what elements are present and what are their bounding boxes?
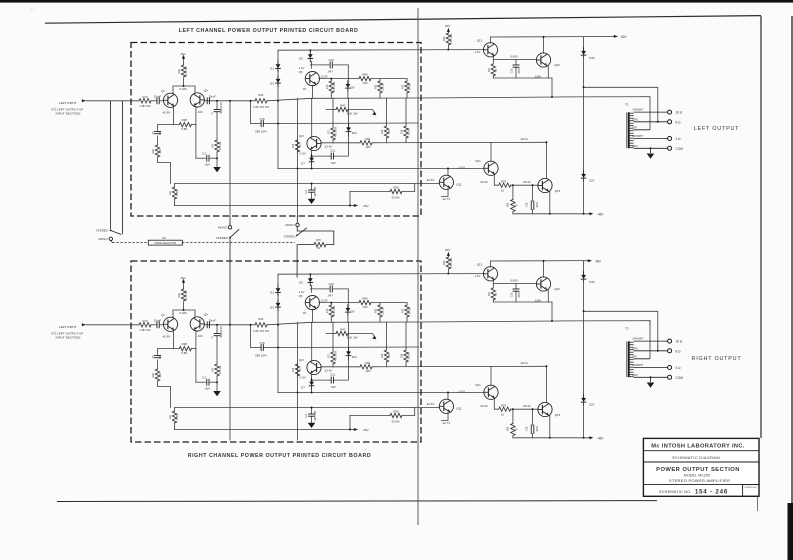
terminal MONO switch B <box>296 223 299 226</box>
arrow 46V right channel <box>588 259 592 262</box>
page top border <box>45 16 761 24</box>
dashed link to mode box <box>113 242 149 244</box>
svg-text:MONO: MONO <box>218 226 228 230</box>
switch A arm <box>230 229 239 237</box>
wire R75 to switch B column <box>297 244 314 246</box>
contact STEREO switch A <box>229 237 231 239</box>
svg-text:STEREO: STEREO <box>96 229 109 233</box>
wire patch T2 8ohm feed <box>657 346 659 351</box>
wire mono to dashed link <box>111 241 113 243</box>
title block row line 2 <box>643 461 759 463</box>
terminal MONO switch A <box>228 226 231 229</box>
svg-text:MODE SELECTOR: MODE SELECTOR <box>154 242 176 245</box>
title block outer frame <box>643 438 759 496</box>
scan right edge strip <box>788 503 793 560</box>
left PCB dashed box <box>131 43 421 217</box>
svg-text:SCHEMATIC DIAGRAM: SCHEMATIC DIAGRAM <box>672 455 720 460</box>
svg-text:STEREO: STEREO <box>216 236 229 240</box>
svg-text:46V: 46V <box>621 35 628 39</box>
svg-text:MONO: MONO <box>286 223 296 227</box>
right channel circuit <box>51 248 658 441</box>
page bottom border <box>57 500 657 503</box>
right PCB dashed box <box>131 261 421 442</box>
scan fold line <box>417 8 419 525</box>
svg-text:46V: 46V <box>596 259 603 263</box>
scan right edge line <box>791 16 793 503</box>
svg-text:MONO: MONO <box>99 237 109 241</box>
svg-text:STEREO: STEREO <box>284 235 297 239</box>
mode selector box <box>148 240 182 245</box>
title block row line 1 <box>643 450 759 452</box>
contact STEREO input <box>110 230 112 232</box>
svg-text:Mc INTOSH LABORATORY INC.: Mc INTOSH LABORATORY INC. <box>651 443 745 449</box>
svg-text:POWER OUTPUT SECTION: POWER OUTPUT SECTION <box>656 467 740 473</box>
svg-text:LEFT OUTPUT: LEFT OUTPUT <box>694 126 740 132</box>
resistor R75 <box>314 242 326 246</box>
arrow 46V left channel <box>614 35 618 38</box>
switch B arm <box>297 228 307 236</box>
svg-text:R75: R75 <box>316 238 321 242</box>
mode selector row <box>113 216 334 325</box>
wire input drop to stereo contact <box>110 101 112 230</box>
switch A drop from left board <box>229 216 231 226</box>
title block revision box <box>743 485 759 497</box>
page right border <box>760 16 762 438</box>
svg-text:RIGHT OUTPUT: RIGHT OUTPUT <box>692 356 742 362</box>
input mode switch (left only) <box>96 101 122 243</box>
page top scan bar <box>0 0 793 3</box>
title block <box>643 438 759 496</box>
wire patch T2 GRY feed <box>649 321 651 326</box>
svg-text:154 - 246: 154 - 246 <box>695 488 728 495</box>
svg-text:SCHEMATIC NO.: SCHEMATIC NO. <box>659 490 691 494</box>
terminal MONO input <box>109 237 112 240</box>
contact STEREO switch B <box>296 235 298 237</box>
wire switch B down to right board <box>296 245 298 278</box>
svg-text:FORM 10-64: FORM 10-64 <box>744 487 757 489</box>
dashed link to switches <box>182 242 295 244</box>
switch B drop from left board <box>296 216 298 223</box>
svg-text:S3: S3 <box>162 236 166 240</box>
title block row line 3 <box>643 484 759 486</box>
left output transformer T1 <box>627 97 684 159</box>
svg-text:T1: T1 <box>625 103 629 107</box>
svg-text:.·⋅: .·⋅ <box>30 7 34 12</box>
svg-text:MODEL MC250: MODEL MC250 <box>684 474 710 478</box>
svg-text:LEFT CHANNEL POWER OUTPUT PRIN: LEFT CHANNEL POWER OUTPUT PRINTED CIRCUI… <box>179 28 359 34</box>
svg-text:T2: T2 <box>625 327 629 331</box>
wire 46V stub right channel <box>584 260 588 262</box>
right output transformer T2 <box>627 326 684 388</box>
svg-text:STEREO POWER AMPLIFIER: STEREO POWER AMPLIFIER <box>669 478 730 483</box>
wire 46V stub left channel <box>584 35 614 37</box>
page right border below title block <box>757 497 759 512</box>
svg-text:RIGHT CHANNEL POWER OUTPUT PRI: RIGHT CHANNEL POWER OUTPUT PRINTED CIRCU… <box>188 453 371 459</box>
left channel circuit <box>51 24 658 217</box>
wire switch A down to right board <box>229 238 231 325</box>
switch arm input <box>111 230 122 234</box>
wire switch arm riser <box>122 101 124 235</box>
R75 loop wires <box>297 227 334 245</box>
